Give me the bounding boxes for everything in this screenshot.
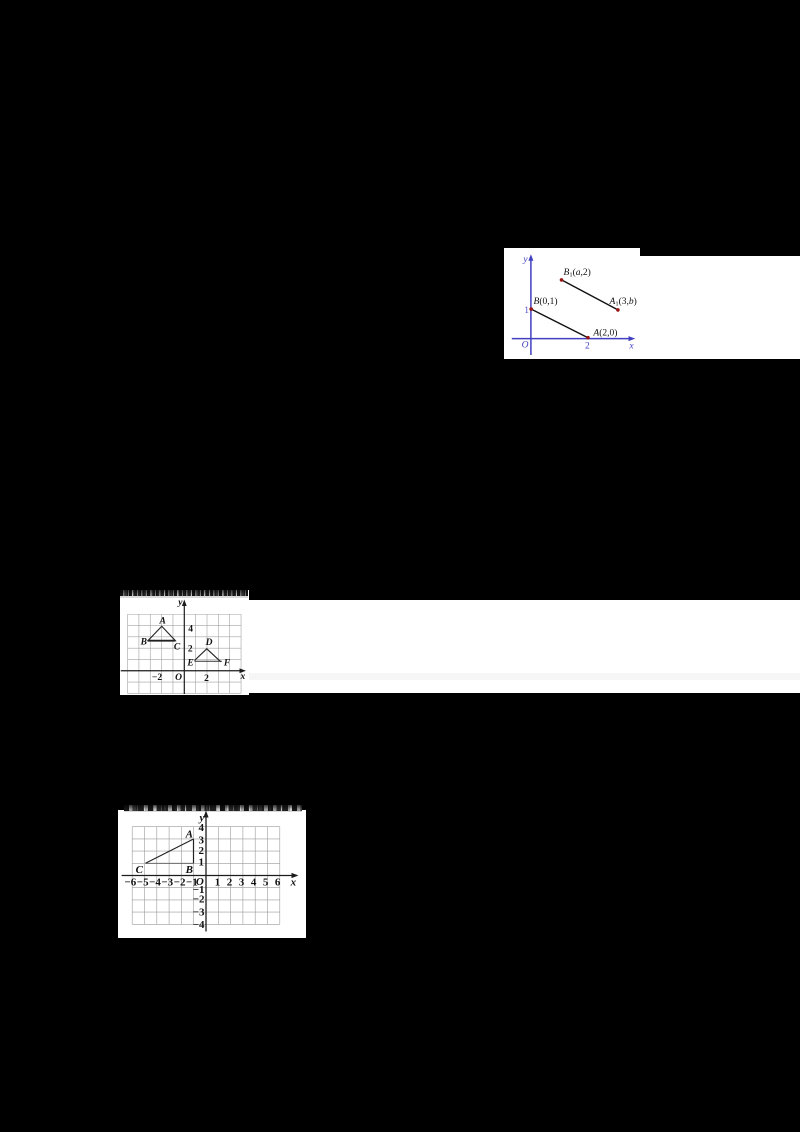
svg-text:−4: −4 [192,919,204,931]
svg-text:y: y [177,598,183,608]
svg-text:y: y [522,254,528,264]
figure 2 white panel [120,590,249,695]
triangle side A to B [192,839,194,863]
svg-text:4: 4 [188,624,193,634]
svg-text:C: C [173,642,180,652]
figure 1 white panel [504,248,800,360]
svg-text:F: F [222,659,230,669]
svg-text:1: 1 [214,876,220,888]
triangle side C to B along grid [145,862,193,864]
svg-text:−2: −2 [151,673,161,683]
svg-text:A(2,0): A(2,0) [592,327,617,338]
point A1(3,b) dot [616,308,620,312]
figure 3 white panel [118,810,306,938]
segment B1 to A1 [561,279,617,309]
svg-text:−3: −3 [161,876,173,888]
svg-text:5: 5 [262,876,268,888]
svg-text:x: x [628,341,634,351]
svg-text:−2: −2 [192,894,204,906]
grid [127,614,241,693]
x-axis arrowhead [628,336,635,341]
figure 3 garbled text strip [124,805,302,811]
svg-text:B(0,1): B(0,1) [533,296,557,307]
y-axis [183,603,185,694]
figure 2 garbled text strip [120,590,248,597]
triangle ABC bottom edge thick [147,640,175,642]
point B(0,1) dot [529,307,533,311]
svg-text:x: x [239,672,245,682]
y-axis arrowhead [203,811,208,818]
point A(2,0) dot [586,335,590,339]
grid [132,827,280,925]
x-axis [121,875,293,877]
svg-text:B1(a,2): B1(a,2) [563,266,590,278]
figure 2 faint gray strip in band [249,673,800,680]
figure 1 black notch top-right [640,248,800,256]
x-axis arrowhead [239,668,246,673]
figure 2 light sliver under strip [120,596,248,598]
svg-text:4: 4 [198,822,204,834]
svg-text:O: O [521,340,528,350]
figure 1 plot [504,248,800,360]
y-axis [205,815,207,932]
svg-text:−6: −6 [124,876,136,888]
triangle ABC [147,626,175,640]
svg-text:x: x [289,877,296,889]
figure 2 plot [120,590,249,695]
svg-text:A: A [158,617,165,627]
x-axis [511,337,630,339]
svg-text:2: 2 [204,674,209,684]
y tick labels [192,822,204,931]
triangle side C to A [145,839,193,863]
x-axis [120,670,241,672]
svg-text:D: D [204,638,212,648]
svg-text:O: O [175,673,182,683]
svg-text:E: E [186,659,193,669]
svg-text:1: 1 [198,857,204,869]
svg-text:2: 2 [226,876,232,888]
svg-text:−2: −2 [173,876,185,888]
figure 3 light sliver under strip [124,811,302,813]
triangle DEF bottom edge [194,660,221,662]
point B1(a,2) dot [559,278,563,282]
svg-text:3: 3 [238,876,244,888]
svg-text:2: 2 [198,845,204,857]
svg-text:A: A [184,829,192,841]
svg-text:C: C [135,864,143,876]
triangle DEF [194,649,220,662]
svg-text:2: 2 [187,645,192,655]
x tick labels [124,876,280,888]
y-axis arrowhead [181,600,186,607]
svg-text:−3: −3 [192,906,204,918]
svg-text:B: B [139,638,146,648]
segment B to A [531,309,588,338]
svg-text:2: 2 [585,341,590,351]
svg-text:B: B [184,864,192,876]
figure 3 plot [118,802,306,938]
svg-text:A1(3,b): A1(3,b) [608,295,636,307]
x-axis arrowhead [291,873,298,878]
svg-text:6: 6 [274,876,280,888]
figure 2 right white band [249,600,800,693]
svg-text:1: 1 [524,305,529,315]
svg-text:4: 4 [250,876,256,888]
svg-text:−5: −5 [136,876,148,888]
y-axis arrowhead [528,254,533,261]
y-axis [529,258,531,355]
svg-text:−4: −4 [149,876,161,888]
